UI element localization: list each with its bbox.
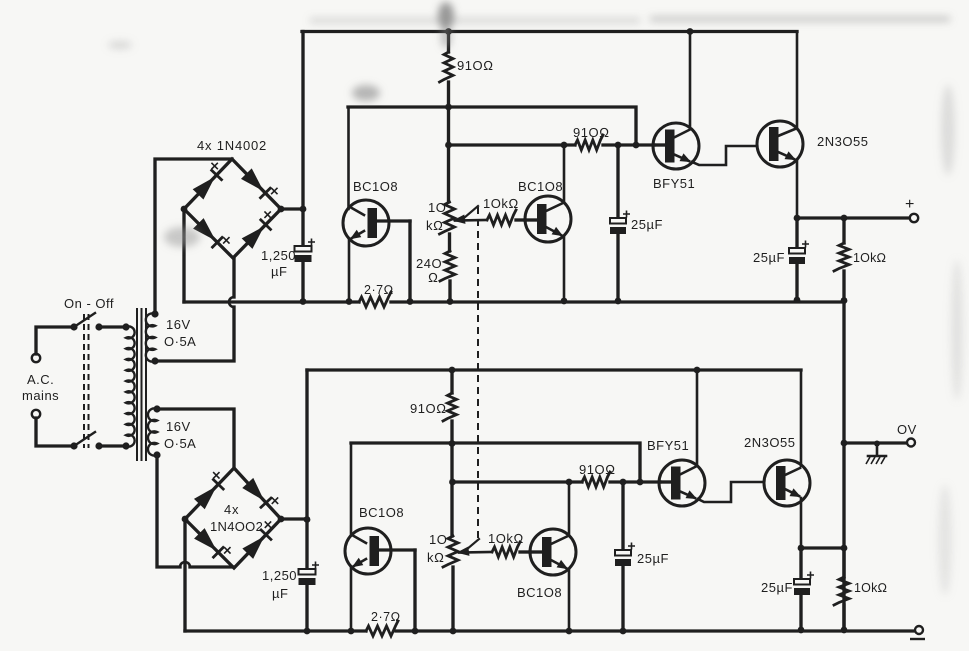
node junction bridge-right / main positive [300,206,307,213]
Q3 collector lead [673,32,690,139]
Q2 base lead [525,218,537,221]
label 10 k ohm lower pot [427,532,447,565]
Q8 collector lead [785,370,801,475]
svg-text:mains: mains [22,388,59,403]
transistor Q1 BC108 upper-left [343,200,389,246]
resistor 2.7 ohm lower [366,621,398,636]
wire AC lower terminal to switch [36,418,72,446]
wire 0V rail upper supply [184,300,844,303]
wire AC upper terminal to switch [36,327,72,354]
svg-text:2N3O55: 2N3O55 [817,134,868,149]
diode D4 (upper bridge bottom-right) [243,211,271,248]
wire lower secondary bottom to bridge bottom vertex (hops over left-vertex wire) [157,455,234,567]
transformer core [137,308,146,461]
node Q7 collector at lower top rail [694,367,701,374]
wire lower bridge right vertex to reservoir [281,517,307,520]
svg-text:BC1O8: BC1O8 [359,505,404,520]
svg-text:O·5A: O·5A [164,436,196,451]
node 0V junction [841,440,848,447]
svg-text:µF: µF [272,586,288,601]
svg-text:1N4OO2: 1N4OO2 [210,519,263,534]
node C4 bottom junction [304,628,311,635]
wire upper bridge right vertex to reservoir [281,207,303,210]
node Q2 emitter at 0V rail [561,298,568,305]
label BC108 lower-left [359,505,404,520]
node Q6 emitter at negative rail [566,628,573,635]
svg-text:1,250: 1,250 [261,248,296,263]
node Q2 collector at third rail [561,142,568,149]
node Q8 emitter junction [798,545,805,552]
svg-text:1O: 1O [428,200,446,215]
label 10k upper right [853,251,886,265]
ganged pot link (dashed) [477,207,479,538]
node C3 bottom at 0V rail [794,297,801,304]
resistor 10k ohm lower (wiper to BC108 base) [492,542,530,557]
wire top rail lower supply [307,368,801,371]
svg-text:BFY51: BFY51 [647,438,689,453]
svg-text:+: + [905,196,914,213]
label 4x 1N4002 lower [210,502,263,534]
svg-text:BC1O8: BC1O8 [517,585,562,600]
svg-text:24O: 24O [416,256,442,271]
label 2.7 ohm lower [371,610,401,624]
node C5 top junction [620,479,627,486]
node C2 bottom junction [615,298,622,305]
lower bridge frame [185,468,281,568]
svg-text:2N3O55: 2N3O55 [744,435,795,450]
transformer T1 primary winding [122,323,134,449]
Q7 collector lead [679,370,697,475]
node Q6 collector at third rail [566,479,573,486]
capacitor C6 25uF lower right [794,548,814,630]
switch On-Off lower pole blade [70,432,102,450]
Q1 collector lead [349,107,365,215]
Q7 base lead [660,480,671,483]
svg-text:25µF: 25µF [761,580,793,595]
transformer secondary upper 16V 0.5A [146,310,159,364]
label 25uF upper right cap [753,250,785,265]
wiper link to gang dashes lower [466,539,479,550]
node second rail junction [445,104,452,111]
wire lower terminal of upper secondary to bridge bottom vertex (hops over 0V rail) [155,258,234,361]
node C5 bottom junction [620,628,627,635]
wire upper bridge left vertex down to 0V rail [182,209,185,302]
svg-text:A.C.: A.C. [27,372,54,387]
label 910 ohm upper vertical [457,58,494,73]
Q3 base lead [654,143,665,146]
label 2N3055 lower [744,435,795,450]
svg-text:25µF: 25µF [637,551,669,566]
transistor Q5 BC108 lower-left [345,528,391,574]
node 0V vertical junction lower [841,545,848,552]
label 1,250 uF lower [262,568,297,601]
Q6 emitter lead [551,560,569,631]
svg-text:25µF: 25µF [753,250,785,265]
wire upper secondary to bridge top vertex [155,159,232,314]
wire lower secondary to bridge top vertex [157,409,234,468]
resistor 910ohm lower (vertical) [443,370,457,536]
Q5 collector lead [351,443,366,543]
node lower third rail junction [449,479,456,486]
label + output [905,196,914,213]
svg-text:BFY51: BFY51 [653,176,695,191]
node lower second-rail drop junction [637,479,644,486]
Q2 collector lead [546,145,564,211]
svg-text:µF: µF [271,264,287,279]
wire Q4 emitter to + terminal [797,216,910,219]
wire Q1 base down to 0V rail [408,221,411,302]
svg-text:1OkΩ: 1OkΩ [853,251,886,265]
transistor Q6 BC108 lower-right [530,529,576,575]
resistor 910ohm lower (third rail horizontal) [582,472,610,487]
capacitor C3 25uF upper right [789,218,809,300]
svg-text:91OΩ: 91OΩ [457,58,494,73]
svg-text:4x 1N4002: 4x 1N4002 [197,138,267,153]
label BC108 upper-left [353,179,398,194]
label 240 ohm upper [416,256,442,285]
diode D7 (lower bridge left-bottom) [195,529,231,557]
node upper bridge right vertex [278,206,285,213]
wire second rail lower supply [351,443,640,482]
Q4 collector lead [778,32,797,137]
node Q5 base at negative rail [412,628,419,635]
node pot bottom at negative rail [450,628,457,635]
svg-text:25µF: 25µF [631,217,663,232]
svg-text:1OkΩ: 1OkΩ [483,196,519,211]
wire negative rail [185,629,915,632]
Q8 emitter lead [785,489,801,548]
node Q1 base at 0V rail [407,298,414,305]
capacitor C1 1,250uF upper [295,239,316,263]
label 16V 0.5A upper [164,317,196,349]
svg-text:2·7Ω: 2·7Ω [364,283,394,297]
Q5 base lead [379,548,415,551]
label 25uF upper-left cap [631,217,663,232]
transistor Q2 BC108 upper-right [525,196,571,242]
label 1,250 uF upper [261,248,296,279]
diode D3 (upper bridge left-bottom) [194,219,230,247]
node 240ohm bottom junction [447,298,454,305]
node second-rail drop junction [633,142,640,149]
wire switch to primary bottom [99,444,126,447]
label BFY51 lower [647,438,689,453]
upper bridge frame [184,159,281,258]
transistor Q8 2N3055 lower [764,460,810,506]
wire third rail upper supply [449,143,655,146]
resistor 240 ohm upper [440,251,455,302]
label OV [897,422,917,437]
label A.C. mains [22,372,59,403]
svg-text:BC1O8: BC1O8 [353,179,398,194]
svg-text:O·5A: O·5A [164,334,196,349]
node lower bridge left vertex [182,516,189,523]
svg-text:1OkΩ: 1OkΩ [488,531,524,546]
node lower bridge right vertex [278,516,285,523]
svg-text:91OΩ: 91OΩ [410,401,447,416]
svg-text:1,250: 1,250 [262,568,297,583]
wire lower bridge left vertex down to negative rail [183,519,186,631]
Q1 emitter lead [349,231,364,302]
svg-text:Ω: Ω [428,270,439,285]
capacitor C2 25uF upper (at Q2) [610,145,630,301]
node third rail junction [445,142,452,149]
node 10k top junction [841,215,848,222]
node Q1 emitter at 0V rail [346,298,353,305]
node C2 top junction [615,142,622,149]
wire top rail upper supply [302,30,797,33]
svg-text:16V: 16V [166,419,191,434]
diode D2 (upper bridge top-right) [242,169,278,198]
node C1 bottom junction [300,298,307,305]
Q6 base lead [530,550,542,553]
label 10k ohm lower wiper [488,531,524,546]
Q4 emitter lead [778,152,797,218]
label 4x 1N4002 upper [197,138,267,153]
node 0V rail top junction [841,297,848,304]
svg-text:kΩ: kΩ [426,218,444,233]
capacitor C4 1,250uF lower [299,562,320,586]
label 25uF lower-left cap [637,551,669,566]
label On - Off [64,296,114,311]
wire C1 to 0V rail [301,262,304,302]
Q6 collector lead [551,482,569,544]
label 16V 0.5A lower [164,419,196,451]
label 2N3055 upper [817,134,868,149]
wire third rail lower supply [453,480,660,483]
Q1 base lead [377,219,410,222]
wire C4 to negative rail [305,585,308,631]
potentiometer 10k lower wiper arrow [458,547,492,555]
wire switch to primary top [99,325,126,328]
label 910 ohm lower horizontal [579,462,616,477]
A.C. mains terminal lower [32,410,40,418]
label 25uF lower right cap [761,580,793,595]
label 10 k ohm upper pot [426,200,446,233]
wire Q8 emitter junction to 0V vertical [801,546,844,549]
node top rail junction at 910ohm [445,28,452,35]
wire main positive riser upper [301,32,304,246]
wire 0V rail to 0V terminal [844,441,907,444]
svg-text:91OΩ: 91OΩ [573,125,610,140]
potentiometer 10k upper track [440,202,455,251]
svg-text:kΩ: kΩ [427,550,445,565]
resistor 910ohm upper (vertical from top rail) [440,32,454,203]
node Q3 collector at top rail [687,28,694,35]
Q7 emitter lead [679,482,764,502]
capacitor C5 25uF lower (at Q6) [615,482,635,631]
label BC108 lower-right [517,585,562,600]
diode D6 (lower bridge top-right) [243,479,278,508]
svg-text:4x: 4x [224,502,239,517]
ground symbol [866,441,886,465]
diode D5 (lower bridge left-top) [195,472,223,508]
label BFY51 upper [653,176,695,191]
Q3 emitter lead [673,146,757,165]
label 2.7 ohm upper [364,283,394,297]
node lower second rail junction [449,440,456,447]
resistor 10k ohm upper (wiper to BC108 base) [487,210,525,225]
node Q4 emitter junction [794,215,801,222]
label BC108 upper-right [518,179,563,194]
wire Q5 base down to negative rail [413,550,416,631]
Q2 emitter lead [546,227,564,301]
node C6 bottom at negative rail [798,627,805,634]
resistor 910ohm upper (third rail horizontal) [575,135,603,150]
node Q5 emitter at negative rail [348,628,355,635]
switch mechanical link (dashed) [84,314,89,448]
diode D1 (upper bridge left-top) [194,163,222,199]
wiper link to gang dashes upper [464,206,478,218]
svg-text:1OkΩ: 1OkΩ [854,581,887,595]
label - output underline [910,638,925,640]
wire second rail upper supply [348,107,636,145]
svg-text:BC1O8: BC1O8 [518,179,563,194]
terminal - output [915,626,923,634]
resistor 10k upper right [834,218,849,300]
potentiometer 10k upper wiper arrow [454,215,487,223]
wire 0V vertical rail [842,300,845,630]
transformer secondary lower 16V 0.5A [148,405,161,458]
node Q1 collector rail corner [0,0,1,1]
node lower top rail junction [449,367,456,374]
terminal 0V [907,439,915,447]
label 10k ohm upper wiper [483,196,519,211]
node upper bridge left vertex [181,206,188,213]
label 910 ohm lower vertical [410,401,447,416]
node 10k lower bottom junction [841,627,848,634]
transistor Q7 BFY51 lower [659,460,705,506]
svg-text:1O: 1O [429,532,447,547]
svg-text:91OΩ: 91OΩ [579,462,616,477]
resistor 10k lower right [834,548,849,630]
svg-text:OV: OV [897,422,917,437]
transistor Q3 BFY51 upper [653,123,699,169]
Q5 emitter lead [351,559,366,631]
terminal + output [910,214,918,222]
node lower bridge-right junction [304,516,311,523]
label 910 ohm upper horizontal [573,125,610,140]
wire lower main positive riser [305,370,308,569]
A.C. mains terminal upper [32,354,40,362]
transistor Q4 2N3055 upper [757,121,803,167]
potentiometer 10k lower track [443,536,458,631]
resistor 2.7 ohm upper [359,292,391,307]
svg-text:2·7Ω: 2·7Ω [371,610,401,624]
svg-text:On - Off: On - Off [64,296,114,311]
switch On-Off upper pole blade [70,313,102,331]
svg-text:16V: 16V [166,317,191,332]
label 10k lower right [854,581,887,595]
diode D8 (lower bridge bottom-right) [243,521,271,558]
